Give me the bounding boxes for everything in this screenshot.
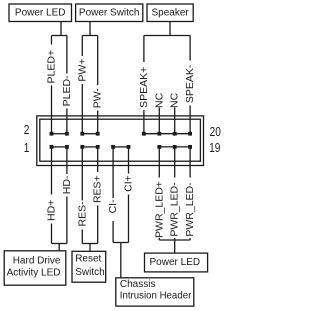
pin 20 xyxy=(188,132,192,136)
box Speaker xyxy=(147,4,193,22)
wire NC pin18 xyxy=(174,108,176,134)
stub from Power Switch box xyxy=(89,22,91,36)
wire RES+ xyxy=(97,147,99,244)
bridge pins 14-20 xyxy=(144,133,190,135)
svg-text:19: 19 xyxy=(209,141,220,155)
pin 6 xyxy=(80,132,84,136)
pin 15 xyxy=(157,145,161,149)
header inner rectangle xyxy=(40,119,201,161)
svg-text:NC: NC xyxy=(153,92,165,108)
bridge pins 1-3 xyxy=(52,146,67,148)
wire PWR_LED- pin19 xyxy=(189,147,191,240)
svg-text:PW-: PW- xyxy=(92,88,104,109)
svg-text:PWR_LED+: PWR_LED+ xyxy=(153,181,165,238)
svg-text:CI+: CI+ xyxy=(123,175,135,192)
label bg PLED+ xyxy=(46,45,57,86)
label bg PWR_LED- pin19 xyxy=(185,178,196,239)
stub to Chassis box xyxy=(120,243,122,278)
label bg PWR_LED- pin17 xyxy=(169,178,180,239)
wire HD+ xyxy=(51,147,53,244)
label bg PW- xyxy=(92,85,103,111)
svg-text:NC: NC xyxy=(169,92,181,108)
svg-text:PWR_LED-: PWR_LED- xyxy=(184,182,196,237)
pin 19 xyxy=(188,145,192,149)
svg-text:PLED-: PLED- xyxy=(61,75,73,106)
bridge pins 9-11 xyxy=(113,146,128,148)
wire PLED- xyxy=(66,36,68,134)
pin 18 xyxy=(173,132,177,136)
svg-text:PLED+: PLED+ xyxy=(46,50,58,84)
box Power LED (top) xyxy=(9,4,72,22)
pin 2 xyxy=(50,132,54,136)
wire CI+ xyxy=(128,147,130,243)
bridge pins 15-19 xyxy=(159,146,190,148)
bridge pins 5-7 xyxy=(82,146,97,148)
pin 9 xyxy=(111,145,115,149)
pin 5 xyxy=(80,145,84,149)
box Chassis Intrusion Header xyxy=(116,278,194,306)
wire PW- xyxy=(97,36,99,134)
label bg PLED- xyxy=(61,74,72,109)
svg-text:HD+: HD+ xyxy=(46,200,58,221)
wire PWR_LED- pin17 xyxy=(174,147,176,240)
wire SPEAK+ xyxy=(143,36,145,134)
wire CI- xyxy=(112,147,114,243)
svg-text:1: 1 xyxy=(24,141,30,155)
bracket Speaker group xyxy=(144,35,190,37)
stub to Power LED bottom box xyxy=(174,240,176,253)
svg-text:Activity LED: Activity LED xyxy=(7,267,61,278)
bridge pins 6-8 xyxy=(82,133,97,135)
svg-text:RES-: RES- xyxy=(76,201,88,227)
svg-text:PWR_LED-: PWR_LED- xyxy=(169,182,181,237)
pin 16 xyxy=(157,132,161,136)
label bg SPEAK- xyxy=(185,61,196,106)
svg-text:SPEAK-: SPEAK- xyxy=(184,64,196,103)
svg-text:Switch: Switch xyxy=(75,267,104,278)
svg-text:Intrusion Header: Intrusion Header xyxy=(120,290,192,301)
label bg PW+ xyxy=(77,56,88,84)
stub to Reset box xyxy=(89,244,91,252)
label bg RES+ xyxy=(92,172,103,206)
pin 17 xyxy=(173,145,177,149)
wire SPEAK- xyxy=(189,36,191,134)
svg-text:PW+: PW+ xyxy=(76,59,88,82)
box Power Switch xyxy=(76,4,143,22)
box Hard Drive Activity LED xyxy=(4,251,66,285)
stub from Power LED box xyxy=(60,22,62,36)
label bg RES- xyxy=(77,201,88,230)
svg-text:20: 20 xyxy=(210,125,222,139)
stub from Speaker box xyxy=(169,22,171,36)
svg-text:HD-: HD- xyxy=(61,175,73,194)
label bg HD- xyxy=(61,174,72,197)
svg-text:Power LED: Power LED xyxy=(150,257,201,268)
label bg SPEAK+ xyxy=(138,62,149,110)
label bg HD+ xyxy=(46,195,57,224)
box Power LED (bottom) xyxy=(145,253,208,272)
bracket PWR_LED group xyxy=(159,239,190,241)
svg-text:Speaker: Speaker xyxy=(151,7,189,18)
pin 3 xyxy=(65,145,69,149)
svg-text:Reset: Reset xyxy=(75,254,101,265)
pin 11 xyxy=(127,145,131,149)
label bg PWR_LED+ xyxy=(154,178,165,239)
wire RES- xyxy=(81,147,83,244)
label bg CI- xyxy=(108,198,119,221)
bracket PLED pair xyxy=(52,35,67,37)
svg-text:2: 2 xyxy=(24,123,30,137)
wire HD- xyxy=(66,147,68,244)
svg-text:Chassis: Chassis xyxy=(120,279,156,290)
bracket RES pair xyxy=(82,243,97,245)
pin 1 xyxy=(50,145,54,149)
svg-text:RES+: RES+ xyxy=(92,175,104,203)
header outer rectangle xyxy=(37,116,204,166)
svg-text:SPEAK+: SPEAK+ xyxy=(138,67,150,108)
svg-text:Power LED: Power LED xyxy=(15,7,66,18)
wire PW+ xyxy=(81,36,83,134)
bracket HD pair xyxy=(52,243,67,245)
bridge pins 2-4 xyxy=(52,133,67,135)
svg-text:CI-: CI- xyxy=(107,199,119,214)
stub to Hard Drive box xyxy=(58,244,60,251)
bracket CI pair xyxy=(113,242,128,244)
pin 14 xyxy=(142,132,146,136)
pin 7 xyxy=(96,145,100,149)
label bg CI+ xyxy=(123,174,134,195)
svg-text:Power Switch: Power Switch xyxy=(79,7,140,18)
bracket PW pair xyxy=(82,35,97,37)
svg-text:Hard Drive: Hard Drive xyxy=(13,256,61,267)
pin 8 xyxy=(96,132,100,136)
wire NC pin16 xyxy=(158,108,160,134)
wire PWR_LED+ xyxy=(158,147,160,240)
pin 4 xyxy=(65,132,69,136)
wire PLED+ xyxy=(51,36,53,134)
box Reset Switch xyxy=(72,251,106,282)
